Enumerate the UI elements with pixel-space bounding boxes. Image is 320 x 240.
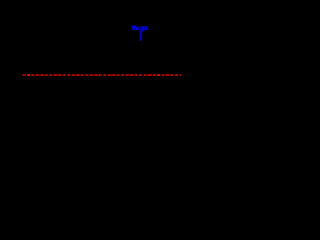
svg-text:Margin: Margin	[132, 25, 148, 32]
